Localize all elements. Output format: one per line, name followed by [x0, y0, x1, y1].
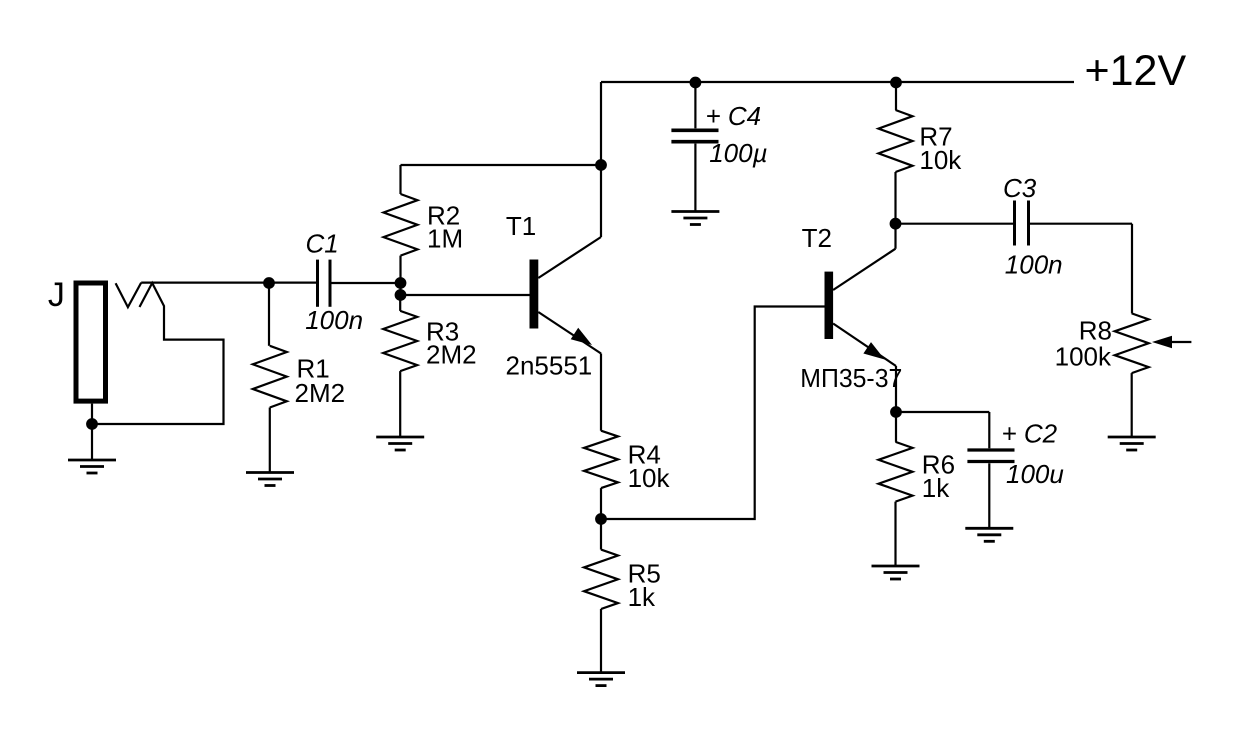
- svg-text:+ C4: + C4: [706, 101, 762, 131]
- svg-text:1k: 1k: [922, 473, 950, 503]
- svg-text:+12V: +12V: [1085, 47, 1187, 95]
- svg-text:+ C2: + C2: [1002, 418, 1058, 448]
- svg-text:100k: 100k: [1055, 341, 1112, 371]
- svg-text:100u: 100u: [1006, 459, 1064, 489]
- svg-text:100n: 100n: [1005, 250, 1063, 280]
- svg-text:100µ: 100µ: [709, 138, 767, 168]
- svg-text:100n: 100n: [305, 305, 363, 335]
- svg-text:МП35-37: МП35-37: [800, 363, 902, 393]
- svg-text:10k: 10k: [919, 145, 962, 175]
- svg-text:C1: C1: [306, 229, 339, 259]
- svg-text:2n5551: 2n5551: [506, 350, 593, 380]
- svg-text:1M: 1M: [427, 224, 463, 254]
- svg-text:T2: T2: [802, 223, 832, 253]
- svg-text:1k: 1k: [628, 582, 656, 612]
- svg-text:2M2: 2M2: [295, 378, 346, 408]
- svg-text:2M2: 2M2: [426, 340, 477, 370]
- svg-text:T1: T1: [506, 211, 536, 241]
- svg-text:C3: C3: [1003, 173, 1037, 203]
- svg-text:J: J: [48, 276, 65, 314]
- svg-text:10k: 10k: [628, 463, 671, 493]
